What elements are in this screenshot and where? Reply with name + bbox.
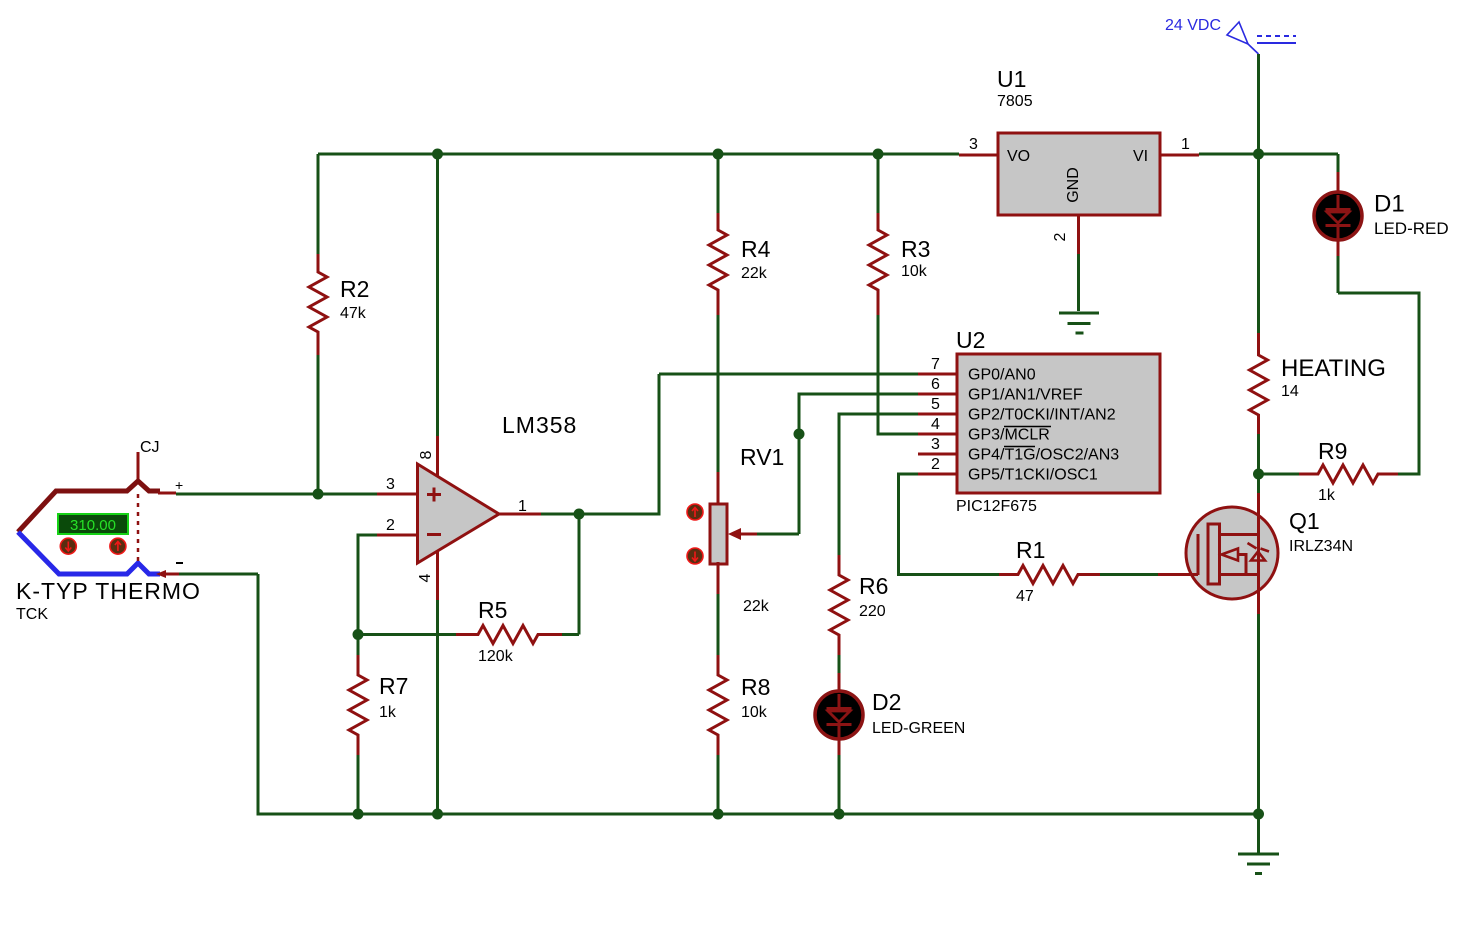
svg-text:R2: R2 (340, 276, 369, 302)
resistor R2 47k (309, 154, 369, 494)
svg-text:47k: 47k (340, 305, 367, 322)
svg-text:Q1: Q1 (1289, 508, 1320, 534)
svg-text:24 VDC: 24 VDC (1165, 17, 1221, 34)
wire thermocouple plus to op-amp pin 3 (176, 493, 377, 496)
resistor R3 10k (869, 154, 930, 434)
pin 3 U2 stub (918, 436, 957, 454)
svg-text:R7: R7 (379, 673, 408, 699)
svg-text:GP3/MCLR: GP3/MCLR (968, 427, 1050, 444)
svg-text:R8: R8 (741, 674, 770, 700)
ground symbol bottom right (1238, 854, 1279, 874)
svg-text:VI: VI (1133, 148, 1148, 165)
svg-text:2: 2 (1052, 232, 1069, 241)
wire thermocouple minus to ground rail (179, 573, 258, 576)
svg-text:GND: GND (1065, 167, 1082, 203)
svg-text:5: 5 (931, 396, 940, 413)
pin 7 U2 stub (918, 356, 957, 374)
svg-text:4: 4 (417, 573, 434, 582)
resistor R8 10k (709, 655, 770, 814)
wire ground bottom rail (258, 574, 1259, 814)
node junction output to R5 (574, 509, 585, 520)
pin 1 op-amp output (499, 498, 541, 515)
pin 5 U2 stub (918, 396, 957, 414)
pin 2 U2 stub (918, 456, 957, 474)
resistor R1 47 (999, 537, 1158, 605)
potentiometer RV1 22k (687, 444, 799, 655)
svg-text:220: 220 (859, 603, 886, 620)
svg-text:3: 3 (969, 136, 978, 153)
pin plus thermocouple stub (158, 492, 176, 495)
wire 24V rail right of U1 (1199, 153, 1338, 156)
svg-text:D1: D1 (1374, 191, 1405, 218)
resistor R6 220 (830, 555, 888, 673)
wire R5 right leg up to output (578, 514, 581, 635)
svg-text:10k: 10k (741, 704, 768, 721)
svg-text:1: 1 (518, 498, 527, 515)
svg-text:1k: 1k (379, 704, 397, 721)
svg-text:310.00: 310.00 (70, 517, 116, 534)
svg-text:LM358: LM358 (502, 412, 577, 438)
svg-text:7805: 7805 (997, 93, 1033, 110)
LED D2 LED-GREEN (815, 673, 965, 814)
transistor Q1 IRLZ34N MOSFET (1158, 474, 1353, 814)
svg-text:HEATING: HEATING (1281, 355, 1386, 382)
svg-text:R6: R6 (859, 573, 888, 599)
svg-text:3: 3 (386, 476, 395, 493)
chip U2 PIC12F675 (956, 327, 1160, 515)
svg-text:7: 7 (931, 356, 940, 373)
svg-text:+: + (175, 477, 183, 493)
wire op-amp output to feedback and GP0 (541, 374, 659, 514)
svg-text:GP0/AN0: GP0/AN0 (968, 367, 1036, 384)
svg-text:1k: 1k (1318, 487, 1336, 504)
svg-text:GP4/T1G/OSC2/AN3: GP4/T1G/OSC2/AN3 (968, 447, 1119, 464)
node junction bottom rail at R8 (713, 809, 724, 820)
pin 2 op-amp stub (377, 517, 418, 535)
pin 6 U2 stub (918, 376, 957, 394)
op-amp U1:A LM358 (418, 412, 578, 563)
svg-text:PIC12F675: PIC12F675 (956, 498, 1037, 515)
node junction bottom rail at D2 (834, 809, 845, 820)
resistor R9 1k (1259, 293, 1420, 504)
node junction 24V rail at power line (1253, 149, 1264, 160)
svg-text:3: 3 (931, 436, 940, 453)
svg-text:R3: R3 (901, 236, 930, 262)
wire U2 pin2 to R1 (899, 474, 1000, 575)
pin 4 op-amp V- (417, 551, 438, 814)
wire U2 pin5 to R6 (839, 414, 918, 555)
pin 1 U1 stub VI (1160, 136, 1199, 155)
wire U2 pin7 to op-amp output (659, 373, 918, 376)
pin minus thermocouple stub (156, 570, 179, 578)
svg-text:GP5/T1CKI/OSC1: GP5/T1CKI/OSC1 (968, 467, 1098, 484)
svg-text:TCK: TCK (16, 606, 48, 623)
svg-text:K-TYP THERMO: K-TYP THERMO (16, 578, 201, 604)
resistor R4 22k (709, 154, 771, 472)
svg-text:U2: U2 (956, 327, 985, 353)
pin 2 U1 stub GND (1052, 215, 1079, 311)
thermocouple TCK K-TYP THERMO (16, 439, 201, 623)
node junction bottom rail at ground symbol (1253, 809, 1264, 820)
node junction bottom rail at op-amp pin4 (432, 809, 443, 820)
wire 24VDC terminal to rail (1257, 54, 1260, 154)
pin 4 U2 stub (918, 416, 957, 434)
regulator U1 7805 (997, 66, 1160, 215)
svg-text:47: 47 (1016, 588, 1034, 605)
node junction top rail at op-amp pin8 (432, 149, 443, 160)
svg-text:6: 6 (931, 376, 940, 393)
svg-text:22k: 22k (741, 265, 768, 282)
svg-text:10k: 10k (901, 263, 928, 280)
svg-text:R9: R9 (1318, 438, 1347, 464)
svg-text:IRLZ34N: IRLZ34N (1289, 538, 1353, 555)
svg-text:RV1: RV1 (740, 444, 784, 470)
pin 8 op-amp V+ (418, 154, 438, 476)
svg-text:22k: 22k (743, 598, 770, 615)
node junction HEATING R9 Q1 drain (1253, 469, 1264, 480)
svg-text:LED-RED: LED-RED (1374, 219, 1449, 238)
svg-text:LED-GREEN: LED-GREEN (872, 720, 965, 737)
wire op-amp pin 2 to feedback node (358, 535, 377, 635)
resistor R5 120k feedback (358, 597, 579, 665)
wire U2 pin6 to RV1 wiper (799, 394, 918, 534)
svg-text:CJ: CJ (140, 439, 160, 456)
node junction bottom rail at R7 (353, 809, 364, 820)
wire +5V top rail (318, 153, 959, 156)
svg-text:8: 8 (418, 450, 435, 459)
node junction R5 R7 pin2 (353, 629, 364, 640)
LED D1 LED-RED (1314, 154, 1449, 293)
wire bottom rail to ground symbol (1257, 814, 1260, 853)
svg-text:R1: R1 (1016, 537, 1045, 563)
svg-text:VO: VO (1007, 148, 1030, 165)
svg-text:U1: U1 (997, 66, 1026, 92)
svg-text:D2: D2 (872, 689, 901, 715)
svg-text:2: 2 (931, 456, 940, 473)
svg-text:4: 4 (931, 416, 940, 433)
resistor R7 1k (349, 635, 408, 815)
svg-text:GP2/T0CKI/INT/AN2: GP2/T0CKI/INT/AN2 (968, 407, 1116, 424)
resistor HEATING 14 (1250, 154, 1386, 474)
svg-text:14: 14 (1281, 383, 1299, 400)
svg-text:GP1/AN1/VREF: GP1/AN1/VREF (968, 387, 1083, 404)
svg-text:120k: 120k (478, 648, 514, 665)
node junction top rail at R3 (873, 149, 884, 160)
svg-text:R4: R4 (741, 236, 771, 262)
pin 3 U1 stub VO (959, 136, 998, 155)
node junction on pin6 wire (794, 429, 805, 440)
svg-text:1: 1 (1181, 136, 1190, 153)
node junction top rail at R4 (713, 149, 724, 160)
svg-text:2: 2 (386, 517, 395, 534)
power terminal 24 VDC (1165, 17, 1296, 54)
pin 3 op-amp stub (377, 476, 418, 494)
node junction op-amp noninverting input (313, 489, 324, 500)
ground symbol under U1 (1059, 313, 1099, 333)
svg-text:R5: R5 (478, 597, 507, 623)
